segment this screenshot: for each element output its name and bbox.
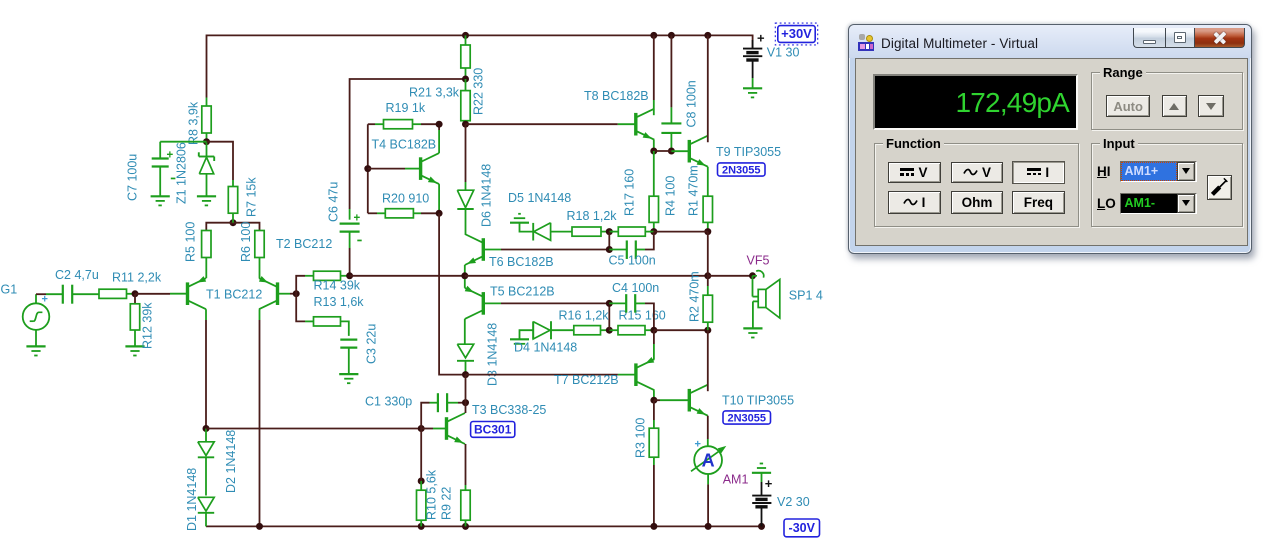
wire D2 node to T3 base bbox=[206, 428, 421, 430]
svg-text:+: + bbox=[695, 439, 701, 451]
svg-text:R3 100: R3 100 bbox=[634, 418, 648, 458]
svg-text:C8 100n: C8 100n bbox=[685, 80, 699, 127]
diode D5 1N4148 bbox=[532, 223, 534, 241]
HI combo bbox=[1120, 161, 1198, 182]
svg-text:D3 1N4148: D3 1N4148 bbox=[486, 323, 500, 386]
svg-text:-30V: -30V bbox=[789, 521, 816, 535]
node bottom rail / V2 bbox=[758, 523, 765, 530]
client area bbox=[855, 58, 1248, 246]
resistor R22 330 bbox=[465, 35, 467, 45]
diode D4 1N4148 bbox=[532, 321, 534, 339]
svg-text:+: + bbox=[765, 476, 773, 491]
ground below speaker bbox=[743, 327, 762, 329]
svg-text:T7 BC212B: T7 BC212B bbox=[554, 373, 619, 387]
Input group box bbox=[1091, 143, 1243, 227]
svg-text:+: + bbox=[167, 150, 174, 162]
resistor R18 1,2k bbox=[572, 227, 601, 236]
wire T4 emitter down bbox=[438, 184, 440, 213]
diode D3 1N4148 bbox=[457, 344, 473, 358]
wire AM1 to bottom rail bbox=[707, 474, 709, 484]
wire bias row to T8 base bbox=[466, 123, 618, 125]
transistor T3 BC338-25 bbox=[445, 417, 448, 440]
capacitor C1 330p bbox=[421, 403, 429, 429]
svg-text:VF5: VF5 bbox=[747, 254, 770, 268]
wire T3 emitter down to R9 bbox=[465, 444, 467, 485]
svg-text:BC301: BC301 bbox=[474, 423, 512, 437]
wire R4-R1 row bbox=[654, 231, 708, 233]
speaker SP1 4 bbox=[752, 276, 754, 297]
resistor R16 1,2k bbox=[574, 326, 601, 335]
ammeter AM1 bbox=[691, 448, 724, 472]
minus sign C7 bbox=[171, 178, 176, 180]
svg-text:T10 TIP3055: T10 TIP3055 bbox=[722, 394, 794, 408]
button DC V bbox=[888, 162, 941, 182]
node T4 base junction bbox=[364, 165, 371, 172]
node bottom rail / T2 collector bbox=[256, 523, 263, 530]
node top rail / T9 collector bbox=[704, 32, 711, 39]
svg-text:R14 39k: R14 39k bbox=[314, 279, 361, 293]
svg-text:+: + bbox=[42, 294, 48, 306]
wire T2 base node up to R14 bbox=[296, 276, 305, 294]
svg-text:R1 470m: R1 470m bbox=[687, 165, 701, 216]
svg-text:T8 BC182B: T8 BC182B bbox=[584, 89, 649, 103]
svg-text:D1 1N4148: D1 1N4148 bbox=[185, 468, 199, 531]
wire T10 emitter down to AM1 bbox=[707, 416, 709, 439]
button AC I bbox=[888, 191, 941, 214]
LCD display bbox=[873, 74, 1078, 130]
diode D6 1N4148 bbox=[465, 124, 467, 182]
wire T4 emitter node down to T7 base row bbox=[439, 213, 465, 374]
resistor R15 160 bbox=[609, 329, 618, 331]
resistor R6 100 bbox=[255, 231, 264, 258]
svg-text:2N3055: 2N3055 bbox=[727, 413, 766, 425]
Function group box bbox=[874, 143, 1079, 227]
node R2 bottom / T10 collector bbox=[704, 327, 711, 334]
wire R13 to C3 bbox=[341, 321, 349, 336]
svg-text:R6 100: R6 100 bbox=[239, 222, 253, 262]
wire T1 collector down bbox=[205, 309, 207, 320]
node C1 / R10 / T3 base bbox=[418, 425, 425, 432]
wire T5 emitter from output row bbox=[464, 276, 466, 288]
svg-text:C6 47u: C6 47u bbox=[327, 182, 341, 222]
svg-text:R20 910: R20 910 bbox=[382, 192, 429, 206]
node C1 right / T3 collector bbox=[462, 399, 469, 406]
Range group box bbox=[1091, 72, 1243, 130]
title bar bbox=[849, 25, 1251, 58]
svg-text:R17 160: R17 160 bbox=[623, 169, 637, 216]
resistor R9 22 bbox=[461, 490, 470, 520]
svg-text:D6 1N4148: D6 1N4148 bbox=[480, 164, 494, 227]
svg-text:C3 22u: C3 22u bbox=[365, 324, 379, 364]
wire T3 collector up to D3 node bbox=[465, 375, 467, 413]
svg-text:R5 100: R5 100 bbox=[184, 222, 198, 262]
svg-text:R13 1,6k: R13 1,6k bbox=[314, 295, 365, 309]
wire T9 emitter to R1 bbox=[707, 167, 709, 197]
wire bottom -30V rail bbox=[206, 525, 762, 527]
node D3 / T7 base row / T3 collector bbox=[462, 371, 469, 378]
capacitor C8 100n bbox=[670, 35, 672, 107]
antenna terminal D4 bbox=[520, 330, 534, 339]
resistor R1 470m bbox=[703, 196, 712, 222]
transistor T2 BC212 bbox=[276, 282, 279, 305]
svg-text:D2 1N4148: D2 1N4148 bbox=[224, 430, 238, 493]
Auto button bbox=[1106, 95, 1150, 117]
multimeter window Digital Multimeter - Virtual bbox=[848, 24, 1252, 254]
resistor R13 1,6k bbox=[314, 317, 341, 326]
ground below C3 bbox=[339, 373, 358, 375]
node R21 bottom / bias row bbox=[462, 121, 469, 128]
wire T7 collector down bbox=[653, 390, 655, 400]
node T2 base junction bbox=[293, 290, 300, 297]
node bottom rail / AM1 bbox=[705, 523, 712, 530]
node R8 bottom junction bbox=[203, 138, 210, 145]
node T8 emitter / R4 bbox=[650, 148, 657, 155]
diode D1 1N4148 bbox=[198, 497, 214, 511]
node bottom rail / R9 bbox=[462, 523, 469, 530]
node output / R1 R2 column bbox=[704, 272, 711, 279]
HI label bbox=[1097, 164, 1111, 179]
wire T6 emitter to output row bbox=[464, 265, 466, 276]
node R22 / R21 / C6 wire bbox=[462, 76, 469, 83]
LO label bbox=[1097, 196, 1116, 211]
svg-text:V2 30: V2 30 bbox=[777, 495, 810, 509]
svg-text:C1 330p: C1 330p bbox=[365, 395, 412, 409]
node R16 / R15 row bbox=[606, 327, 613, 334]
node C8 / T9 base bbox=[668, 148, 675, 155]
node R1 bottom bbox=[704, 228, 711, 235]
wire T4 collector up bbox=[438, 130, 440, 153]
window icon bbox=[858, 34, 875, 51]
svg-text:C2 4,7u: C2 4,7u bbox=[55, 268, 99, 282]
svg-text:T5 BC212B: T5 BC212B bbox=[490, 285, 555, 299]
transistor T9 TIP3055 bbox=[688, 140, 691, 163]
svg-text:R16 1,2k: R16 1,2k bbox=[559, 309, 610, 323]
svg-text:T4 BC182B: T4 BC182B bbox=[372, 138, 437, 152]
capacitor C2 4,7u bbox=[62, 285, 64, 304]
wire T7 emitter up bbox=[653, 344, 655, 359]
wire R8 node to R7 bbox=[207, 142, 234, 180]
wire output row bbox=[350, 275, 465, 277]
source G1 bbox=[23, 303, 50, 330]
node R7 bottom junction bbox=[230, 219, 237, 226]
node R18 / R17 row bbox=[606, 228, 613, 235]
LO combo bbox=[1120, 193, 1198, 214]
net label +30V box bbox=[775, 23, 817, 45]
svg-text:R19 1k: R19 1k bbox=[386, 101, 426, 115]
transistor T7 BC212B bbox=[634, 363, 637, 386]
capacitor C6 47u bbox=[340, 223, 360, 225]
range down button bbox=[1198, 95, 1224, 117]
node VF5 / speaker bbox=[749, 272, 756, 279]
svg-text:+: + bbox=[757, 31, 765, 46]
transistor T4 BC182B bbox=[419, 157, 422, 180]
svg-text:+: + bbox=[354, 213, 361, 225]
ground above V2 bbox=[752, 472, 771, 474]
button Ohm bbox=[951, 191, 1003, 214]
capacitor C3 22u bbox=[340, 339, 357, 341]
capacitor C4 100n bbox=[609, 302, 626, 304]
antenna terminal D5 bbox=[518, 213, 521, 215]
svg-text:R21 3,3k: R21 3,3k bbox=[409, 86, 460, 100]
wire T5 collector down bbox=[464, 319, 466, 344]
wire T2 collector down bbox=[259, 309, 261, 320]
node bottom rail / R3 bbox=[650, 523, 657, 530]
wire T9 collector to rail bbox=[707, 35, 709, 142]
wire left bias column bbox=[367, 124, 369, 213]
node T7 collector / R3 / T10 base bbox=[650, 397, 657, 404]
resistor R21 3,3k bbox=[465, 79, 467, 91]
node output row / T6 T5 bbox=[461, 272, 468, 279]
zener diode Z1 1N2806 bbox=[206, 142, 208, 157]
button AC V bbox=[951, 162, 1003, 182]
svg-text:T9 TIP3055: T9 TIP3055 bbox=[716, 145, 781, 159]
wire top +30V rail bbox=[207, 35, 753, 97]
voltage pin VF5 bbox=[753, 271, 764, 278]
svg-text:T3 BC338-25: T3 BC338-25 bbox=[472, 403, 546, 417]
ground below C7 bbox=[151, 195, 170, 197]
resistor R8 3,9k bbox=[206, 98, 208, 107]
svg-text:C7 100u: C7 100u bbox=[126, 154, 140, 201]
resistor R10 5,6k bbox=[420, 429, 422, 482]
wire speaker to ground bbox=[752, 301, 754, 328]
svg-text:Z1 1N2806: Z1 1N2806 bbox=[175, 142, 189, 204]
button Freq bbox=[1012, 191, 1066, 214]
svg-text:T2 BC212: T2 BC212 bbox=[276, 237, 332, 251]
node top rail / R22 bbox=[462, 32, 469, 39]
node top rail / T8 collector bbox=[650, 32, 657, 39]
net label -30V box bbox=[784, 519, 820, 537]
ground below R12 bbox=[125, 345, 144, 347]
svg-text:T1 BC212: T1 BC212 bbox=[206, 288, 262, 302]
svg-text:D4 1N4148: D4 1N4148 bbox=[514, 341, 577, 355]
button DC I selected bbox=[1012, 161, 1066, 184]
svg-text:T6 BC182B: T6 BC182B bbox=[489, 255, 554, 269]
wire T10 collector up to R2 bottom bbox=[707, 330, 709, 391]
resistor R20 910 bbox=[368, 212, 377, 214]
svg-text:R10 5,6k: R10 5,6k bbox=[425, 469, 439, 520]
svg-text:R8 3,9k: R8 3,9k bbox=[187, 101, 201, 145]
resistor R12 39k bbox=[134, 294, 136, 304]
transistor T1 BC212 bbox=[186, 282, 189, 305]
minus sign C6 bbox=[357, 240, 361, 242]
wire output to speaker node bbox=[708, 275, 753, 277]
wire R5-R6 top row bbox=[206, 223, 259, 231]
type label 2N3055 box T10 bbox=[723, 411, 771, 424]
type label BC301 box bbox=[471, 422, 515, 438]
svg-text:R2 470m: R2 470m bbox=[688, 271, 702, 322]
svg-text:D5 1N4148: D5 1N4148 bbox=[508, 191, 571, 205]
wire C5 column stubs bbox=[608, 232, 610, 250]
svg-text:R12 39k: R12 39k bbox=[141, 302, 155, 349]
node R15 right / T7 emitter bbox=[650, 327, 657, 334]
wire T8 emitter node to T9 base bbox=[654, 150, 672, 152]
node T1 collector / D2 / T3 base row bbox=[203, 425, 210, 432]
svg-text:AM1: AM1 bbox=[723, 473, 749, 487]
wire T2 base node down to R13 bbox=[296, 294, 305, 322]
type label 2N3055 box T9 bbox=[718, 163, 766, 176]
range up button bbox=[1162, 95, 1188, 117]
node T4 collector / R19 wire bbox=[436, 121, 443, 128]
resistor R2 470m bbox=[707, 276, 709, 286]
capacitor C5 100n bbox=[609, 249, 627, 251]
probe button bbox=[1207, 175, 1232, 201]
svg-text:A: A bbox=[702, 450, 715, 470]
svg-text:2N3055: 2N3055 bbox=[722, 165, 761, 177]
wire C6 top branch bbox=[350, 79, 466, 209]
transistor T5 BC212B bbox=[482, 292, 485, 315]
node R4 bottom / R17 bbox=[650, 228, 657, 235]
caption buttons bbox=[1133, 28, 1245, 49]
node top rail / C8 bbox=[668, 32, 675, 39]
resistor R19 1k bbox=[368, 123, 375, 125]
battery V2 30 bbox=[761, 473, 763, 482]
node C4 left / T5 base row bbox=[606, 300, 613, 307]
ground below G1 bbox=[35, 330, 37, 347]
wire T8 collector to rail bbox=[653, 100, 655, 115]
node C6 / R14 / output row bbox=[346, 272, 353, 279]
resistor R14 39k bbox=[314, 271, 341, 280]
capacitor C7 100u bbox=[159, 142, 161, 159]
node C5 left bbox=[606, 246, 613, 253]
wire node to T1 base bbox=[135, 293, 170, 295]
node bottom rail / R10 bbox=[418, 523, 425, 530]
resistor R5 100 bbox=[202, 231, 211, 258]
wire R1 bottom to output node bbox=[707, 232, 709, 276]
svg-text:R7 15k: R7 15k bbox=[245, 177, 259, 217]
svg-text:R4 100: R4 100 bbox=[664, 176, 678, 216]
transistor T6 BC182B bbox=[482, 238, 485, 261]
svg-text:+30V: +30V bbox=[781, 26, 812, 41]
svg-text:C5 100n: C5 100n bbox=[609, 254, 656, 268]
ground below Z1 bbox=[197, 195, 216, 197]
resistor R3 100 bbox=[653, 400, 655, 420]
wire output row right bbox=[465, 275, 708, 277]
wire R15 row to R2 bottom bbox=[654, 329, 708, 331]
svg-text:R18 1,2k: R18 1,2k bbox=[567, 209, 618, 223]
node T4 emitter / R20 bbox=[436, 210, 443, 217]
wire T8 emitter down bbox=[653, 140, 655, 151]
node R10 top bbox=[418, 478, 425, 485]
wire R8 node to C7 bbox=[160, 141, 206, 143]
svg-text:R9 22: R9 22 bbox=[440, 487, 454, 520]
svg-text:V1 30: V1 30 bbox=[767, 46, 800, 60]
resistor R4 100 bbox=[653, 151, 655, 196]
resistor R7 15k bbox=[232, 180, 234, 187]
svg-text:G1: G1 bbox=[1, 283, 18, 297]
svg-text:R11 2,2k: R11 2,2k bbox=[112, 271, 162, 285]
battery V1 30 bbox=[752, 40, 754, 49]
ground below V1 bbox=[743, 87, 762, 89]
diode D2 1N4148 bbox=[205, 429, 207, 442]
svg-text:R22 330: R22 330 bbox=[471, 68, 485, 115]
transistor T8 BC182B bbox=[634, 113, 637, 136]
node R11 / R12 / T1 base bbox=[132, 290, 139, 297]
svg-text:C4 100n: C4 100n bbox=[612, 281, 659, 295]
resistor R11 2,2k bbox=[99, 289, 127, 298]
wire C4 column stubs bbox=[608, 303, 610, 330]
resistor R17 160 bbox=[609, 231, 618, 233]
transistor T10 TIP3055 bbox=[688, 389, 691, 412]
svg-text:SP1 4: SP1 4 bbox=[789, 289, 823, 303]
